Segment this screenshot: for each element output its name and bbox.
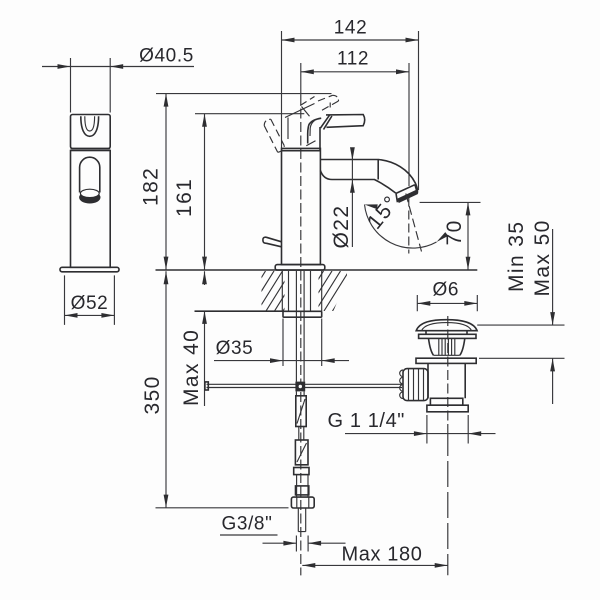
handle left position dashed	[264, 119, 284, 152]
dimension 70 extension line	[420, 201, 481, 203]
label D22	[330, 205, 353, 249]
svg-text:142: 142	[334, 18, 368, 39]
dimension D40.5 line with arrows	[42, 64, 194, 69]
svg-text:Ø22: Ø22	[330, 205, 353, 249]
threaded shank under deck	[282, 271, 321, 311]
label G3/8	[220, 514, 278, 536]
hatching right	[299, 271, 358, 311]
pop-up rod vertical	[296, 271, 304, 382]
label Max 40	[180, 329, 203, 406]
faucet body column	[282, 148, 321, 264]
drain compression band	[430, 398, 462, 405]
G3/8 nut	[291, 497, 314, 508]
label D35	[216, 338, 254, 359]
350 end reference line	[156, 507, 289, 509]
spout aerator	[396, 185, 417, 203]
label 350	[141, 375, 164, 414]
label Max 180	[342, 544, 423, 566]
label D40.5	[139, 46, 194, 67]
hose end extension ticks	[296, 536, 308, 552]
pull rod knob	[263, 237, 282, 247]
svg-text:112: 112	[337, 49, 369, 70]
svg-text:Ø40.5: Ø40.5	[139, 46, 194, 67]
dimension 112 extension line	[408, 63, 410, 186]
supply hose segment B	[295, 440, 308, 465]
dimension G3/8 arrows	[263, 541, 346, 546]
supply hose connector	[299, 427, 304, 441]
side view base plate	[60, 267, 119, 272]
reference line 182 top	[156, 93, 332, 95]
dimension D6 line with arrows	[417, 301, 477, 306]
drain body	[428, 363, 465, 398]
drain ribbed section	[429, 338, 465, 355]
dimension 182 line with arrows	[164, 94, 169, 270]
dimension D6 extension ticks	[417, 295, 477, 311]
dimension Min35 Max50 lines with arrows	[550, 229, 555, 404]
svg-text:Max 40: Max 40	[180, 329, 203, 406]
label Max 50	[531, 219, 554, 296]
reference line 161 top	[195, 113, 304, 115]
countertop line	[156, 269, 478, 271]
label D52	[71, 293, 109, 314]
dimension 112 line with arrows	[301, 69, 409, 74]
dimension 142 extension lines	[282, 31, 419, 190]
svg-text:Max 180: Max 180	[342, 544, 423, 566]
side view body column	[71, 149, 111, 268]
dimension 161 line with arrows	[202, 114, 207, 270]
handle neck	[288, 118, 321, 151]
drain neck	[426, 331, 467, 335]
rod pivot joint	[295, 382, 305, 392]
dimension G1-1/4 extension ticks	[427, 415, 468, 444]
dimension D52 line with arrows	[65, 313, 115, 318]
hatching left	[241, 271, 309, 311]
drain plug cap	[416, 320, 477, 331]
side view handle box	[71, 115, 111, 149]
dimension D40.5 extension lines	[71, 58, 111, 113]
hose collar	[294, 468, 309, 475]
dimension D22 leader with arrows	[350, 147, 355, 247]
dimension 350 line with arrows	[164, 271, 169, 507]
svg-text:Min 35: Min 35	[505, 221, 528, 292]
dimension 70 line with arrows	[466, 202, 471, 269]
pop-up horizontal rod	[205, 382, 402, 390]
faucet center line	[300, 63, 302, 575]
handle pivot detail lines	[285, 104, 315, 118]
label 15deg	[363, 191, 404, 233]
svg-text:Ø6: Ø6	[433, 279, 460, 300]
label Min 35	[505, 221, 528, 292]
svg-text:Max 50: Max 50	[531, 219, 554, 296]
cap top extension line	[477, 324, 564, 326]
counter bottom line	[195, 310, 284, 312]
svg-text:350: 350	[141, 375, 164, 414]
drain lower flange	[416, 358, 476, 363]
label D6	[433, 279, 460, 300]
svg-text:G 1 1/4": G 1 1/4"	[328, 410, 406, 432]
spout tube	[320, 160, 417, 194]
lower flange extension line	[479, 357, 565, 359]
handle raised position dashed	[300, 95, 338, 110]
drain tailpiece	[427, 405, 468, 412]
svg-text:Ø52: Ø52	[71, 293, 109, 314]
dimension 142 line with arrows	[282, 38, 419, 43]
svg-text:G3/8": G3/8"	[222, 514, 273, 535]
drain upper flange	[419, 334, 476, 338]
svg-text:161: 161	[173, 178, 196, 217]
dimension D52 extension lines	[65, 275, 115, 325]
label G 1 1/4	[328, 410, 406, 432]
label 161	[173, 178, 196, 217]
svg-text:70: 70	[443, 219, 466, 245]
spray direction dashed lines	[406, 194, 422, 254]
dimension Max40 arrows	[202, 271, 207, 406]
faucet base plate	[275, 265, 325, 271]
hose lower tube	[296, 475, 309, 498]
svg-text:Ø35: Ø35	[216, 338, 254, 359]
label 70	[443, 219, 466, 245]
label 112	[337, 49, 369, 70]
dimension D35 extension lines	[283, 319, 322, 367]
dimension Max180 line with arrows	[302, 563, 447, 568]
handle grip bar	[321, 115, 365, 130]
angle 15 arc with arrows	[364, 202, 448, 248]
side view spout slot	[79, 157, 100, 203]
svg-text:182: 182	[140, 167, 163, 206]
dimension D35 line with arrows	[214, 358, 349, 363]
label 182	[140, 167, 163, 206]
dimension G1-1/4 line with arrows	[345, 431, 496, 436]
shank locknut	[283, 311, 322, 317]
drain center line	[447, 316, 449, 575]
supply hose segment A	[296, 391, 306, 426]
drain knurled wheel	[400, 369, 428, 401]
hose end tube	[298, 508, 305, 532]
label 142	[334, 18, 368, 39]
